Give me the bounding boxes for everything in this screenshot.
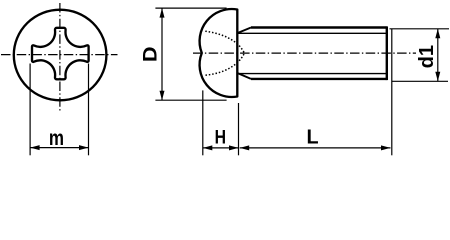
H arrow left	[203, 145, 213, 150]
m arrow right	[79, 145, 89, 150]
d1 arrow up	[435, 29, 440, 39]
m dimension line	[30, 147, 88, 149]
svg-text:d1: d1	[416, 45, 438, 68]
d1 arrow down	[435, 72, 440, 82]
thread minor line bottom	[238, 73, 387, 75]
d1 dimension line	[437, 29, 439, 82]
thread runout bottom	[238, 73, 251, 79]
svg-text:D: D	[141, 46, 162, 62]
screw axis centerline (side view)	[193, 52, 416, 54]
m extension line left	[29, 64, 31, 156]
H dimension line	[203, 147, 239, 149]
L extension line right	[391, 29, 393, 156]
hidden recess dotted curve (side view)	[205, 31, 244, 75]
H extension line right	[238, 103, 240, 155]
thread minor line top	[238, 32, 387, 34]
D arrow down	[160, 91, 165, 101]
D extension line top	[155, 7, 226, 9]
L arrow left	[240, 145, 250, 150]
thread major line bottom	[251, 78, 387, 80]
head circle (top view)	[14, 10, 107, 101]
d1 extension line bottom	[392, 80, 448, 82]
m arrow left	[30, 145, 39, 150]
L dimension line	[240, 147, 391, 149]
d1 extension line top	[390, 28, 450, 30]
shaft end face	[386, 26, 388, 80]
pan head outline (side view)	[200, 9, 238, 97]
m extension line right	[88, 64, 90, 156]
thread runout top	[238, 28, 251, 33]
D dimension line	[161, 8, 163, 100]
centerline vertical (top view)	[59, 3, 61, 112]
svg-text:m: m	[49, 127, 64, 150]
thread major line top	[251, 26, 387, 28]
svg-text:H: H	[215, 126, 226, 148]
D arrow up	[160, 8, 165, 18]
H arrow right	[229, 145, 239, 150]
centerline horizontal (top view)	[1, 54, 118, 56]
phillips recess outline (top view)	[32, 28, 89, 80]
svg-text:L: L	[306, 126, 318, 148]
D extension line bottom	[155, 99, 226, 101]
H extension line left	[202, 90, 204, 155]
L arrow right	[381, 145, 391, 150]
